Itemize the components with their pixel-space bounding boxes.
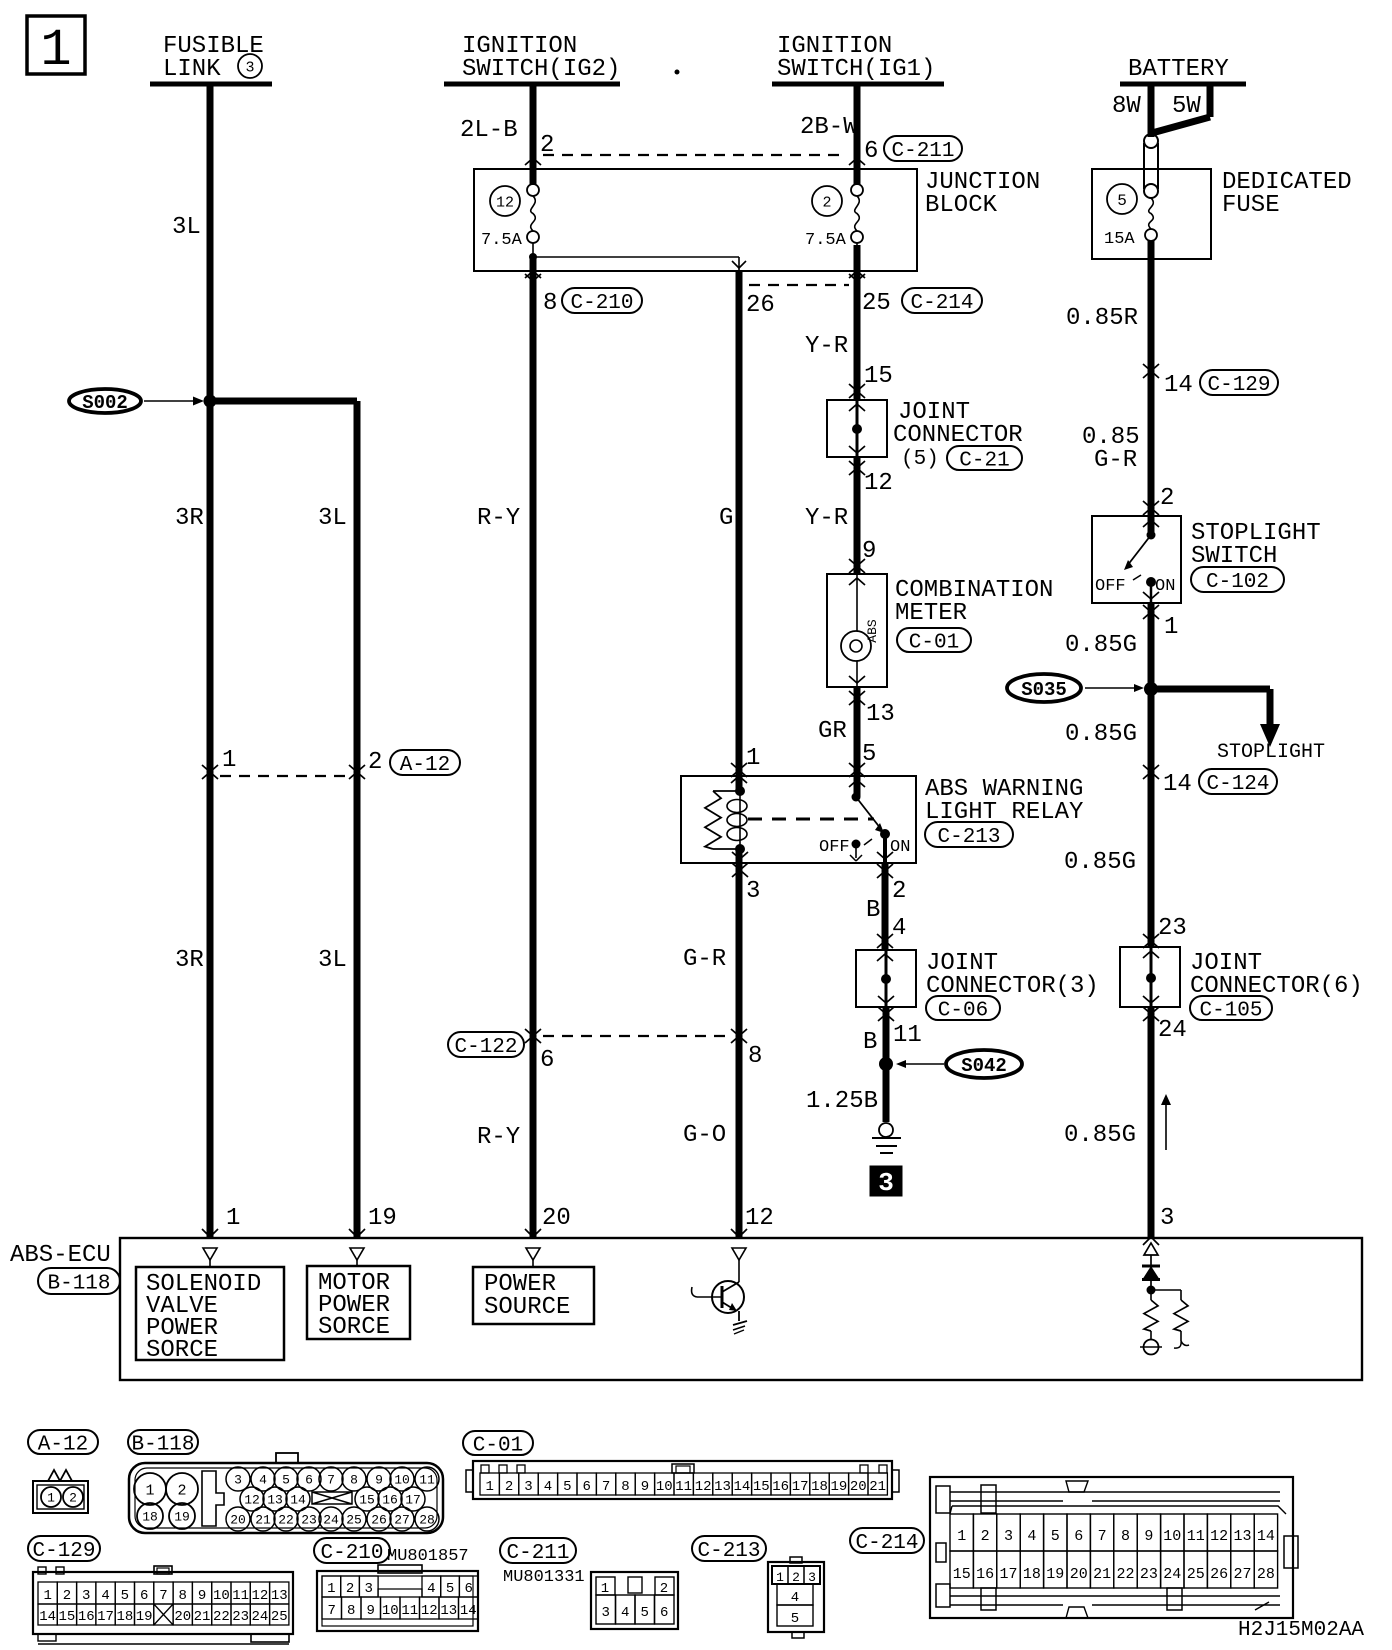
svg-text:B: B [863, 1029, 877, 1056]
svg-text:9: 9 [641, 1479, 649, 1495]
connector A-12 pinout [28, 1430, 98, 1454]
svg-text:3L: 3L [318, 947, 347, 974]
splice S002 [69, 389, 141, 413]
svg-text:C-21: C-21 [959, 450, 1009, 473]
svg-text:2: 2 [505, 1479, 513, 1495]
svg-text:13: 13 [267, 1493, 283, 1508]
svg-text:8: 8 [1121, 1528, 1130, 1545]
svg-text:21: 21 [255, 1513, 271, 1528]
svg-text:OFF: OFF [1095, 577, 1126, 596]
svg-text:4: 4 [791, 1590, 799, 1606]
svg-text:16: 16 [772, 1479, 789, 1495]
connector C-01 pinout [463, 1431, 533, 1455]
wire W5 meter to relay [854, 687, 861, 797]
svg-text:8: 8 [621, 1479, 629, 1495]
svg-text:4: 4 [544, 1479, 552, 1495]
svg-text:2: 2 [63, 1588, 71, 1604]
svg-text:1: 1 [226, 1205, 240, 1232]
svg-text:13: 13 [271, 1588, 288, 1604]
relay coil node bottom [735, 844, 745, 854]
dashed connector line C-211 level [543, 154, 847, 156]
svg-text:9: 9 [862, 538, 876, 565]
svg-text:17: 17 [999, 1566, 1017, 1583]
svg-text:1.25B: 1.25B [806, 1088, 878, 1115]
svg-text:27: 27 [1233, 1566, 1251, 1583]
svg-text:A-12: A-12 [400, 754, 450, 777]
svg-text:3: 3 [878, 1168, 894, 1198]
svg-text:16: 16 [382, 1493, 398, 1508]
svg-text:ABS-ECU: ABS-ECU [10, 1242, 111, 1269]
ABS warning lamp [841, 631, 871, 661]
svg-text:7.5A: 7.5A [481, 231, 523, 250]
transistor Q1 [712, 1281, 744, 1313]
connector A-12 inline crossing [202, 772, 210, 779]
page number box 1 [27, 16, 85, 74]
svg-text:26: 26 [1210, 1566, 1228, 1583]
svg-text:25: 25 [346, 1513, 362, 1528]
svg-text:1: 1 [327, 1581, 335, 1597]
svg-text:C-105: C-105 [1199, 1000, 1262, 1023]
svg-text:14: 14 [1163, 771, 1192, 798]
svg-text:0.85R: 0.85R [1066, 305, 1138, 332]
svg-text:2: 2 [346, 1581, 354, 1597]
svg-text:C-210: C-210 [570, 292, 633, 315]
svg-text:10: 10 [1163, 1528, 1181, 1545]
svg-text:11: 11 [232, 1588, 249, 1604]
svg-text:2: 2 [822, 194, 831, 211]
svg-text:B: B [866, 897, 880, 924]
C-122 crossing on G wire pin 8 [731, 1036, 739, 1043]
svg-text:8: 8 [347, 1603, 355, 1619]
svg-text:3L: 3L [318, 505, 347, 532]
svg-text:12: 12 [864, 470, 893, 497]
ECU pin triangle 20 [526, 1248, 540, 1260]
svg-text:3: 3 [808, 1570, 816, 1585]
svg-text:G-O: G-O [683, 1122, 726, 1149]
splice S035 [1007, 674, 1081, 702]
svg-text:12: 12 [421, 1603, 438, 1619]
svg-text:23: 23 [301, 1513, 317, 1528]
svg-text:9: 9 [375, 1473, 383, 1488]
ABS warning light relay box C-213 [681, 776, 916, 863]
svg-text:11: 11 [675, 1479, 692, 1495]
svg-text:17: 17 [792, 1479, 809, 1495]
svg-text:FUSE: FUSE [1222, 192, 1280, 219]
combination meter box C-01 [827, 574, 887, 687]
svg-text:12: 12 [252, 1588, 269, 1604]
svg-text:SWITCH(IG2): SWITCH(IG2) [462, 56, 620, 83]
svg-text:23: 23 [1158, 915, 1187, 942]
fuse 12 7.5A [490, 186, 520, 216]
svg-text:19: 19 [1046, 1566, 1064, 1583]
relay resistor [713, 790, 740, 792]
svg-text:4: 4 [621, 1605, 629, 1621]
svg-text:C-214: C-214 [855, 1532, 918, 1555]
svg-text:19: 19 [830, 1479, 847, 1495]
svg-text:20: 20 [230, 1513, 246, 1528]
svg-text:3: 3 [234, 1473, 242, 1488]
svg-text:17: 17 [405, 1493, 421, 1508]
svg-text:10: 10 [656, 1479, 673, 1495]
svg-text:BATTERY: BATTERY [1128, 56, 1229, 83]
dashed connector line C-214 level [749, 284, 849, 286]
node ECU divider [1147, 1286, 1156, 1295]
svg-text:1: 1 [40, 21, 71, 80]
svg-text:C-01: C-01 [473, 1435, 523, 1458]
node under fuse 12 [529, 253, 537, 261]
svg-text:1: 1 [957, 1528, 966, 1545]
svg-text:C-06: C-06 [938, 1000, 988, 1023]
svg-text:24: 24 [1158, 1017, 1187, 1044]
svg-text:24: 24 [252, 1609, 269, 1625]
svg-text:A-12: A-12 [38, 1434, 88, 1457]
svg-text:16: 16 [78, 1609, 95, 1625]
svg-text:18: 18 [811, 1479, 828, 1495]
junction block box [474, 169, 917, 271]
ECU input open triangle [1144, 1243, 1158, 1255]
svg-text:18: 18 [116, 1609, 133, 1625]
svg-text:15: 15 [864, 363, 893, 390]
svg-text:3: 3 [746, 878, 760, 905]
svg-text:2: 2 [177, 1482, 186, 1499]
svg-text:11: 11 [419, 1473, 435, 1488]
svg-text:S002: S002 [82, 392, 128, 414]
svg-text:4: 4 [427, 1581, 435, 1597]
svg-text:22: 22 [213, 1609, 230, 1625]
svg-text:13: 13 [1233, 1528, 1251, 1545]
svg-text:R-Y: R-Y [477, 505, 520, 532]
svg-text:G: G [719, 505, 733, 532]
svg-text:14: 14 [1164, 372, 1193, 399]
connector C-211 pinout [500, 1538, 576, 1563]
svg-text:STOPLIGHT: STOPLIGHT [1217, 741, 1325, 764]
connector C-122 crossing [448, 1032, 524, 1057]
svg-text:0.85G: 0.85G [1065, 632, 1137, 659]
svg-text:5: 5 [563, 1479, 571, 1495]
svg-text:C-210: C-210 [320, 1542, 383, 1565]
svg-text:2: 2 [981, 1528, 990, 1545]
svg-text:ABS: ABS [865, 619, 880, 643]
svg-text:C-213: C-213 [697, 1540, 760, 1563]
svg-text:3L: 3L [172, 214, 201, 241]
motor power sorce box [307, 1266, 410, 1339]
relay actuation dashed link [748, 818, 874, 821]
svg-text:ON: ON [890, 838, 910, 857]
svg-text:11: 11 [1187, 1528, 1205, 1545]
svg-text:15: 15 [753, 1479, 770, 1495]
fusible link capsule [1144, 134, 1158, 148]
svg-text:R-Y: R-Y [477, 1124, 520, 1151]
svg-text:C-211: C-211 [891, 140, 954, 163]
svg-text:25: 25 [1187, 1566, 1205, 1583]
svg-text:22: 22 [1116, 1566, 1134, 1583]
svg-text:13: 13 [714, 1479, 731, 1495]
svg-text:2B-W: 2B-W [800, 114, 858, 141]
svg-text:S042: S042 [961, 1055, 1007, 1077]
wire W5 JC3 to ground [883, 1007, 890, 1122]
connector C-129 crossing pin 14 [1143, 371, 1151, 378]
svg-text:4: 4 [1027, 1528, 1036, 1545]
svg-text:6: 6 [540, 1047, 554, 1074]
stoplight switch box C-102 [1092, 516, 1181, 603]
svg-text:5W: 5W [1172, 93, 1201, 120]
svg-text:7.5A: 7.5A [805, 231, 847, 250]
svg-text:0.85G: 0.85G [1065, 721, 1137, 748]
svg-text:C-214: C-214 [910, 292, 973, 315]
resistor R2 [1151, 1289, 1181, 1291]
svg-text:5: 5 [446, 1581, 454, 1597]
ECU pin triangle 12 [732, 1248, 746, 1260]
svg-text:3: 3 [1160, 1205, 1174, 1232]
svg-text:14: 14 [1257, 1528, 1275, 1545]
svg-text:9: 9 [367, 1603, 375, 1619]
transistor base lead [697, 1296, 722, 1298]
svg-text:2: 2 [69, 1491, 77, 1506]
connector C-129 pinout [28, 1536, 100, 1561]
svg-text:1: 1 [1164, 614, 1178, 641]
svg-text:14: 14 [460, 1603, 477, 1619]
svg-text:3R: 3R [175, 505, 204, 532]
ECU pin triangle 1 [203, 1248, 217, 1260]
relay coil [727, 800, 747, 813]
svg-text:C-102: C-102 [1206, 571, 1269, 594]
svg-text:20: 20 [542, 1205, 571, 1232]
svg-text:SOURCE: SOURCE [484, 1294, 570, 1321]
svg-text:3R: 3R [175, 947, 204, 974]
connector C-210 pinout [314, 1538, 390, 1563]
svg-text:MU801857: MU801857 [387, 1547, 469, 1566]
svg-text:20: 20 [1070, 1566, 1088, 1583]
power source box [473, 1267, 594, 1324]
wire W5 exit junction block [849, 271, 857, 278]
joint connector (3) C-06 box [856, 950, 916, 1007]
solenoid valve power sorce box [136, 1267, 284, 1360]
svg-text:C-213: C-213 [937, 826, 1000, 849]
wire W4 exit relay [732, 852, 740, 859]
dedicated fuse box [1092, 169, 1211, 259]
svg-text:4: 4 [892, 915, 906, 942]
svg-text:SORCE: SORCE [318, 1314, 390, 1341]
svg-text:C-129: C-129 [32, 1540, 95, 1563]
wire W4 G from junction block to ABS-ECU pin 12 [736, 271, 743, 791]
svg-text:24: 24 [1163, 1566, 1181, 1583]
svg-text:BLOCK: BLOCK [925, 192, 998, 219]
joint connector (5) C-21 box [827, 400, 887, 457]
transistor emitter ground [733, 1321, 747, 1325]
svg-text:6: 6 [465, 1581, 473, 1597]
svg-text:25: 25 [271, 1609, 288, 1625]
svg-text:19: 19 [368, 1205, 397, 1232]
svg-text:7: 7 [327, 1473, 335, 1488]
junction block internal wire to G [738, 257, 740, 271]
svg-text:14: 14 [290, 1493, 306, 1508]
svg-text:B-118: B-118 [47, 1273, 110, 1296]
wire relay output B [883, 834, 887, 863]
svg-text:2: 2 [368, 749, 382, 776]
ECU pin triangle 19 [350, 1248, 364, 1260]
svg-text:8W: 8W [1112, 93, 1141, 120]
svg-text:C-01: C-01 [909, 632, 959, 655]
svg-text:23: 23 [232, 1609, 249, 1625]
svg-text:27: 27 [394, 1513, 410, 1528]
svg-text:G-R: G-R [1094, 447, 1137, 474]
wire W3 exit junction block [525, 271, 533, 278]
svg-text:7: 7 [1098, 1528, 1107, 1545]
wire W6 below switch [1143, 612, 1151, 619]
ECU entry arrowheads [202, 1229, 210, 1237]
svg-text:7: 7 [159, 1588, 167, 1604]
svg-text:2: 2 [792, 1570, 800, 1585]
svg-text:8: 8 [350, 1473, 358, 1488]
svg-text:C-211: C-211 [506, 1542, 569, 1565]
splice S042 [879, 1057, 893, 1071]
svg-text:9: 9 [1144, 1528, 1153, 1545]
resistor R1 [1150, 1290, 1152, 1300]
svg-text:1: 1 [47, 1491, 55, 1506]
wire W5 to joint connector 5 [854, 271, 861, 400]
svg-text:11: 11 [401, 1603, 418, 1619]
wire W5 IG1 down to ground [854, 84, 861, 185]
svg-text:5: 5 [282, 1473, 290, 1488]
wire W5 between JC5 and meter [854, 457, 861, 574]
svg-text:5: 5 [640, 1605, 648, 1621]
stoplight switch arm [1147, 531, 1156, 540]
svg-text:3: 3 [245, 59, 254, 76]
svg-text:13: 13 [866, 701, 895, 728]
svg-text:6: 6 [660, 1605, 668, 1621]
svg-text:C-129: C-129 [1207, 374, 1270, 397]
svg-text:11: 11 [893, 1022, 922, 1049]
svg-text:25: 25 [862, 290, 891, 317]
svg-text:26: 26 [371, 1513, 387, 1528]
svg-text:H2J15M02AA: H2J15M02AA [1238, 1619, 1364, 1642]
svg-text:2: 2 [1160, 485, 1174, 512]
svg-text:(5): (5) [901, 448, 939, 471]
svg-text:C-124: C-124 [1206, 773, 1269, 796]
svg-text:18: 18 [1023, 1566, 1041, 1583]
fuse 2 7.5A [812, 186, 842, 216]
svg-text:1: 1 [485, 1479, 493, 1495]
ground number box 3 [870, 1166, 902, 1196]
svg-text:MU801331: MU801331 [503, 1568, 585, 1587]
svg-text:Y-R: Y-R [805, 505, 848, 532]
svg-text:SWITCH(IG1): SWITCH(IG1) [777, 56, 935, 83]
svg-text:7: 7 [328, 1603, 336, 1619]
svg-text:21: 21 [1093, 1566, 1111, 1583]
svg-text:3: 3 [82, 1588, 90, 1604]
svg-text:9: 9 [198, 1588, 206, 1604]
svg-text:5: 5 [121, 1588, 129, 1604]
joint connector (6) C-105 box [1120, 947, 1180, 1007]
svg-text:15: 15 [59, 1609, 76, 1625]
svg-text:24: 24 [323, 1513, 339, 1528]
svg-text:1: 1 [43, 1588, 51, 1604]
svg-text:2: 2 [892, 878, 906, 905]
svg-text:B-118: B-118 [131, 1434, 194, 1457]
svg-text:1: 1 [776, 1570, 784, 1585]
wire W1 fusible-link to ABS-ECU pin 1 [207, 84, 214, 1237]
relay switch [852, 793, 861, 802]
svg-text:4: 4 [101, 1588, 109, 1604]
svg-text:1: 1 [222, 747, 236, 774]
svg-text:18: 18 [142, 1510, 158, 1525]
svg-text:13: 13 [440, 1603, 457, 1619]
svg-text:6: 6 [140, 1588, 148, 1604]
svg-text:1: 1 [145, 1482, 154, 1499]
svg-text:17: 17 [97, 1609, 114, 1625]
ECU input diode D1 [1142, 1265, 1160, 1268]
connector C-214 pinout [850, 1528, 924, 1553]
connector B-118 pinout [128, 1430, 198, 1454]
svg-text:6: 6 [864, 138, 878, 165]
svg-text:22: 22 [278, 1513, 294, 1528]
svg-text:21: 21 [194, 1609, 211, 1625]
svg-text:10: 10 [213, 1588, 230, 1604]
svg-text:Y-R: Y-R [805, 333, 848, 360]
relay coil node top [731, 776, 739, 783]
connector C-213 pinout [692, 1536, 766, 1561]
svg-text:SWITCH: SWITCH [1191, 543, 1277, 570]
svg-text:1: 1 [746, 745, 760, 772]
svg-text:3: 3 [601, 1605, 609, 1621]
svg-text:S035: S035 [1021, 679, 1067, 701]
svg-text:26: 26 [746, 292, 775, 319]
svg-text:14: 14 [733, 1479, 750, 1495]
svg-text:20: 20 [850, 1479, 867, 1495]
svg-text:12: 12 [244, 1493, 260, 1508]
svg-text:7: 7 [602, 1479, 610, 1495]
svg-text:6: 6 [1074, 1528, 1083, 1545]
svg-text:12: 12 [695, 1479, 712, 1495]
svg-text:2L-B: 2L-B [460, 117, 518, 144]
ground G3 [879, 1123, 893, 1137]
svg-text:10: 10 [382, 1603, 399, 1619]
wire W2 branch 3L [210, 398, 357, 405]
svg-text:METER: METER [895, 600, 967, 627]
ABS-ECU box B-118 [120, 1238, 1362, 1380]
svg-text:28: 28 [1257, 1566, 1275, 1583]
svg-text:8: 8 [748, 1043, 762, 1070]
svg-text:0.85G: 0.85G [1064, 1122, 1136, 1149]
svg-text:3: 3 [1004, 1528, 1013, 1545]
svg-text:28: 28 [419, 1513, 435, 1528]
svg-text:6: 6 [582, 1479, 590, 1495]
svg-text:15: 15 [953, 1566, 971, 1583]
wire W3 IG2 to ABS-ECU pin 20 [530, 84, 537, 185]
svg-text:5: 5 [791, 1611, 799, 1627]
svg-text:21: 21 [869, 1479, 886, 1495]
svg-text:C-122: C-122 [454, 1036, 517, 1059]
wire W6 battery to ABS-ECU pin 3 [1148, 84, 1155, 137]
svg-text:19: 19 [136, 1609, 153, 1625]
svg-text:12: 12 [1210, 1528, 1228, 1545]
svg-text:15: 15 [359, 1493, 375, 1508]
svg-text:14: 14 [39, 1609, 56, 1625]
speck dot [675, 70, 680, 75]
svg-text:LINK: LINK [163, 56, 221, 83]
svg-text:5: 5 [1051, 1528, 1060, 1545]
svg-text:16: 16 [976, 1566, 994, 1583]
svg-text:GR: GR [818, 718, 847, 745]
svg-text:3: 3 [365, 1581, 373, 1597]
svg-text:20: 20 [174, 1609, 191, 1625]
svg-text:6: 6 [305, 1473, 313, 1488]
svg-text:8: 8 [543, 290, 557, 317]
svg-text:CONNECTOR: CONNECTOR [893, 422, 1023, 449]
svg-text:3: 3 [524, 1479, 532, 1495]
svg-text:12: 12 [496, 194, 514, 211]
svg-text:G-R: G-R [683, 946, 726, 973]
